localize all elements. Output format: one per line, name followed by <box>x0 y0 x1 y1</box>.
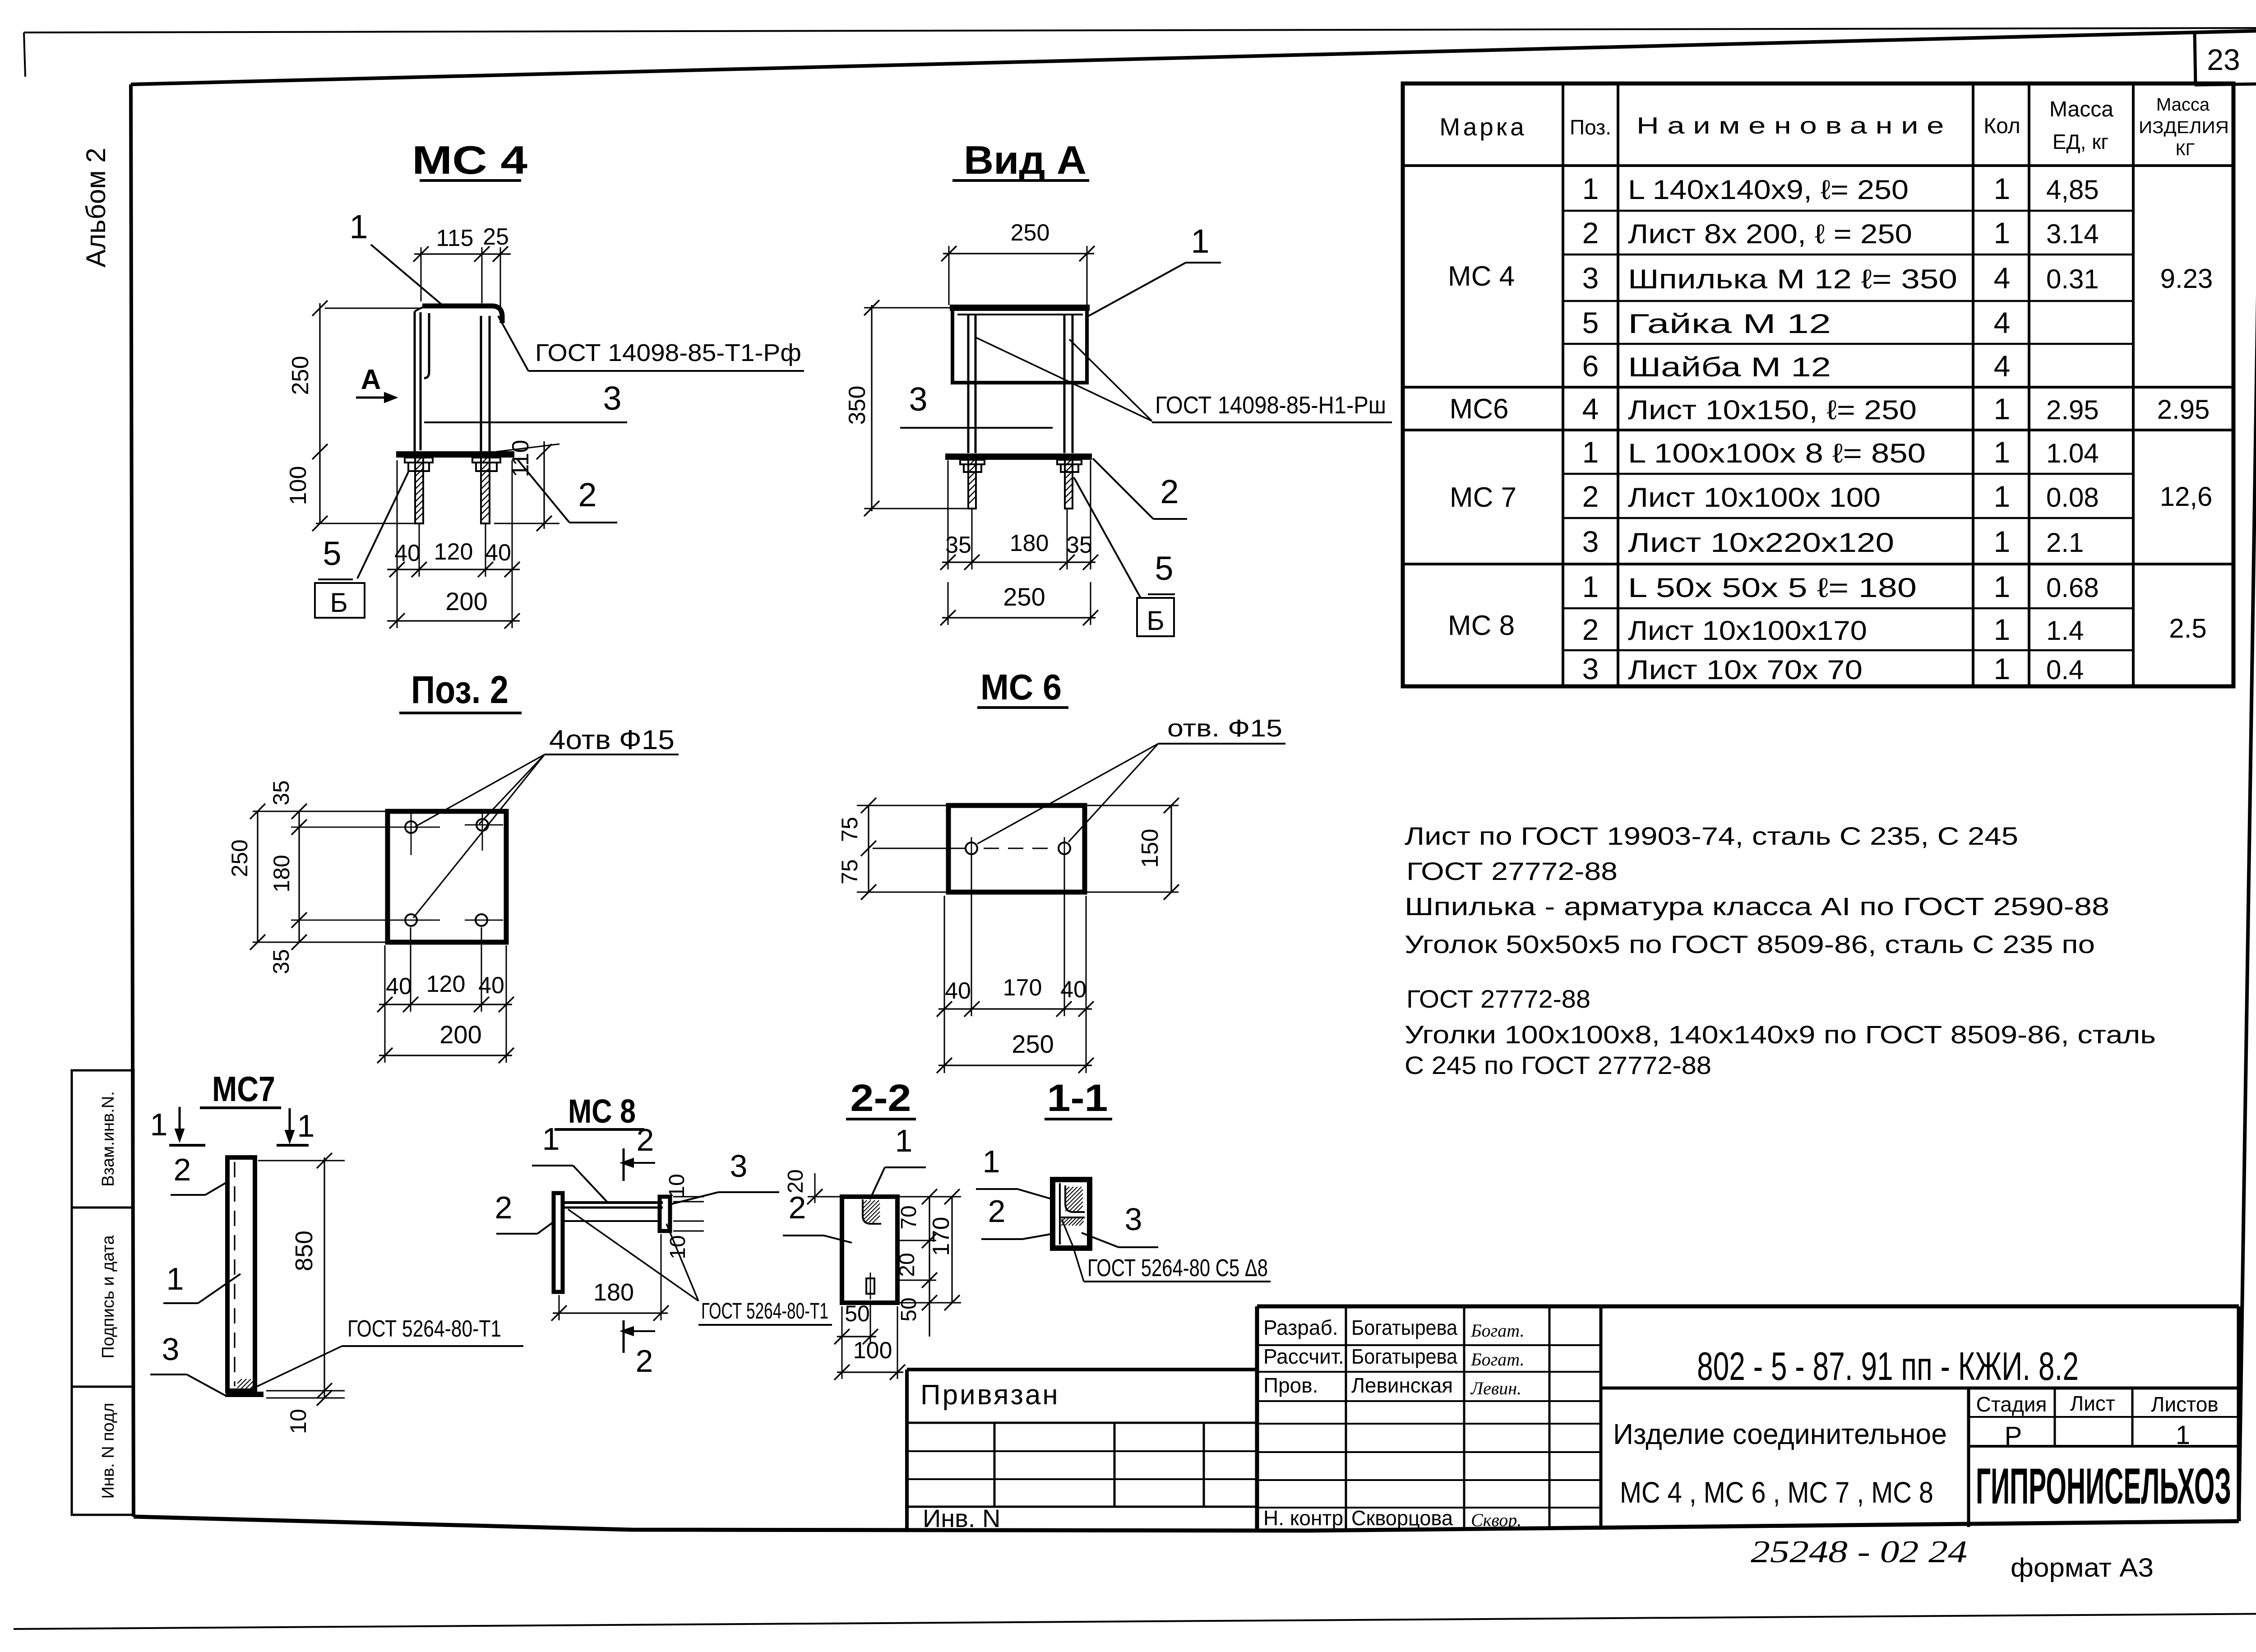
svg-text:100: 100 <box>853 1337 892 1364</box>
МС8 section mark 2 top <box>623 1148 625 1181</box>
spec table group separator lines <box>1403 386 2233 389</box>
svg-text:75: 75 <box>837 817 862 842</box>
side box Взам.инв.N <box>72 1070 134 1208</box>
svg-text:1: 1 <box>1994 525 2011 558</box>
МС4 left nut and washer <box>405 458 433 463</box>
svg-text:1: 1 <box>349 208 368 245</box>
МС6 hole left <box>966 842 977 854</box>
svg-text:2: 2 <box>1582 480 1599 513</box>
svg-text:Лист 10х220х120: Лист 10х220х120 <box>1628 528 1894 558</box>
svg-text:40: 40 <box>485 540 511 566</box>
Поз.2 hole bottom-left <box>405 914 417 926</box>
page number box line <box>2195 32 2196 85</box>
svg-text:Шайба М 12: Шайба М 12 <box>1628 352 1831 382</box>
svg-text:180: 180 <box>269 855 294 892</box>
svg-text:1: 1 <box>1994 570 2011 603</box>
МС8 end plate item3 <box>660 1197 670 1231</box>
svg-text:1: 1 <box>166 1261 184 1296</box>
svg-text:ИЗДЕЛИЯ: ИЗДЕЛИЯ <box>2139 118 2229 137</box>
svg-text:40: 40 <box>394 540 421 566</box>
svg-text:Гайка М 12: Гайка М 12 <box>1628 309 1831 339</box>
svg-text:Левин.: Левин. <box>1470 1378 1521 1398</box>
svg-text:12,6: 12,6 <box>2160 481 2213 512</box>
svg-text:Лист по ГОСТ 19903-74, ста: Лист по ГОСТ 19903-74, сталь С 235, С 24… <box>1405 822 2018 850</box>
2-2 weld mark top <box>863 1199 881 1224</box>
Вид А left stud <box>967 315 970 453</box>
svg-text:Р: Р <box>2005 1421 2022 1451</box>
svg-text:Богат.: Богат. <box>1470 1320 1525 1341</box>
side box Инв.N подл <box>72 1387 134 1515</box>
МС4 label Б box <box>315 583 365 618</box>
svg-text:2: 2 <box>174 1152 191 1187</box>
svg-text:L 50х 50х 5 ℓ= 180: L 50х 50х 5 ℓ= 180 <box>1628 573 1917 603</box>
МС6 dim 75 75 left <box>868 805 869 892</box>
svg-text:МС 8: МС 8 <box>1448 610 1515 641</box>
svg-text:МС 4: МС 4 <box>1448 261 1515 292</box>
svg-text:отв. Ф15: отв. Ф15 <box>1167 715 1282 742</box>
МС4 stud item3 above plate <box>480 316 482 452</box>
svg-text:6: 6 <box>1582 349 1599 383</box>
svg-text:Подпись и дата: Подпись и дата <box>99 1235 118 1358</box>
2-2 dim 50 bottom <box>837 1336 876 1337</box>
svg-text:4,85: 4,85 <box>2046 175 2099 205</box>
МС4 right stud below plate <box>481 458 490 523</box>
svg-text:1: 1 <box>983 1144 1000 1179</box>
МС7 dim 10 <box>317 1390 332 1406</box>
svg-text:Уголок 50х50х5 по ГОСТ 850: Уголок 50х50х5 по ГОСТ 8509-86, сталь С … <box>1405 930 2095 958</box>
svg-text:1.4: 1.4 <box>2046 615 2084 646</box>
svg-text:Привязан: Привязан <box>920 1379 1060 1411</box>
svg-text:100: 100 <box>285 466 311 505</box>
2-2 dim 170 right <box>951 1197 952 1303</box>
svg-text:ГОСТ 14098-85-Н1-Рш: ГОСТ 14098-85-Н1-Рш <box>1155 392 1386 419</box>
side box Подпись и дата <box>72 1208 134 1387</box>
svg-text:Лист 10х100х 100: Лист 10х100х 100 <box>1628 482 1881 513</box>
svg-text:2.5: 2.5 <box>2169 613 2206 643</box>
Вид А plate item1 front <box>952 308 1087 383</box>
svg-text:3: 3 <box>1582 261 1599 295</box>
Вид А right stud below <box>1065 460 1073 509</box>
svg-text:А: А <box>361 364 381 395</box>
svg-text:2: 2 <box>1160 473 1179 510</box>
МС6 dim 250 <box>938 1064 1092 1066</box>
МС4 angle vertical leg <box>414 311 416 452</box>
svg-text:Б: Б <box>1146 606 1164 636</box>
svg-text:Богатырева: Богатырева <box>1351 1345 1457 1368</box>
svg-text:2: 2 <box>636 1343 653 1379</box>
svg-text:250: 250 <box>1011 220 1050 246</box>
МС6 dashed centerline <box>984 848 1056 849</box>
Вид А right stud <box>1063 315 1066 453</box>
svg-text:МС 4 , МС 6 , МС 7 , МС 8: МС 4 , МС 6 , МС 7 , МС 8 <box>1620 1476 1933 1509</box>
svg-text:Н. контр: Н. контр <box>1263 1506 1343 1530</box>
document number 802-5-87.91 пп- КЖИ.8.2 <box>1601 1387 2239 1390</box>
Вид А hidden line <box>957 314 1083 315</box>
svg-text:2: 2 <box>1582 216 1599 250</box>
МС8 vertical plate item2 <box>554 1193 563 1292</box>
МС6 plate outline <box>948 805 1085 892</box>
svg-text:3: 3 <box>909 380 927 418</box>
svg-text:МС 8: МС 8 <box>568 1092 636 1130</box>
svg-text:МС 4: МС 4 <box>412 138 527 182</box>
svg-text:1: 1 <box>1994 172 2011 205</box>
svg-text:Шпилька М 12 ℓ= 350: Шпилька М 12 ℓ= 350 <box>1628 264 1957 294</box>
1-1 plate inner line <box>1059 1183 1061 1245</box>
МС4 top dim line <box>414 253 511 255</box>
svg-text:10: 10 <box>286 1409 311 1434</box>
svg-text:150: 150 <box>1137 829 1163 868</box>
svg-text:0.68: 0.68 <box>2046 573 2099 603</box>
Вид А label Б box <box>1137 598 1174 636</box>
svg-text:ГОСТ 27772-88: ГОСТ 27772-88 <box>1406 985 1590 1013</box>
МС4 right nut and washer <box>472 458 500 463</box>
Поз.2 dims 40 120 40 <box>379 1004 512 1005</box>
МС7 weld hatch bottom <box>237 1379 254 1390</box>
Поз.2 hole bottom-right <box>476 914 487 926</box>
svg-text:1: 1 <box>1994 613 2011 646</box>
svg-text:35: 35 <box>945 532 971 558</box>
svg-text:9.23: 9.23 <box>2160 264 2213 294</box>
svg-text:25248 - 02 24: 25248 - 02 24 <box>1751 1535 1967 1569</box>
Поз.2 dim 200 <box>379 1055 512 1056</box>
svg-text:Масса: Масса <box>2156 95 2210 115</box>
Поз.2 hole top-right <box>476 819 488 831</box>
paper bottom edge <box>14 1614 2256 1629</box>
МС4 dim 250 left <box>319 303 320 452</box>
svg-text:МС7: МС7 <box>212 1069 275 1109</box>
svg-text:Б: Б <box>330 588 347 618</box>
svg-text:25: 25 <box>483 224 509 250</box>
svg-text:3: 3 <box>1125 1202 1142 1237</box>
МС4 weld callout ГОСТ 14098-85-Т1-Рф <box>498 316 528 371</box>
svg-text:250: 250 <box>227 839 252 877</box>
МС4 dim 200 <box>387 620 520 621</box>
svg-text:250: 250 <box>1003 583 1045 611</box>
svg-text:200: 200 <box>445 587 487 615</box>
svg-text:5: 5 <box>323 535 341 572</box>
МС7 hidden dashed line <box>234 1162 235 1386</box>
МС4 leader 1 line <box>371 245 444 307</box>
svg-text:70: 70 <box>897 1205 921 1229</box>
Вид А right nut <box>1057 460 1082 464</box>
svg-text:1: 1 <box>1994 480 2011 513</box>
svg-text:1: 1 <box>1582 172 1599 205</box>
paper top edge <box>24 28 2256 32</box>
svg-text:2.1: 2.1 <box>2046 528 2084 558</box>
МС7 base plate item3 <box>226 1392 264 1397</box>
МС4 dim extension lines top <box>421 247 422 301</box>
Вид А left stud below <box>968 460 976 509</box>
svg-text:23: 23 <box>2207 43 2240 76</box>
Поз.2 dim 250 left <box>257 811 258 942</box>
МС6 dims 40 170 40 <box>938 1008 1092 1009</box>
svg-text:0.4: 0.4 <box>2046 655 2084 685</box>
Привязан table rows <box>907 1422 1257 1424</box>
svg-text:3: 3 <box>162 1332 180 1367</box>
svg-text:ГИПРОНИСЕЛЬХОЗ: ГИПРОНИСЕЛЬХОЗ <box>1976 1458 2231 1514</box>
svg-text:МС 6: МС 6 <box>980 667 1062 707</box>
МС4 leader 3 line <box>424 421 627 423</box>
spec table outer border <box>1403 83 2233 686</box>
svg-text:Пров.: Пров. <box>1263 1374 1318 1397</box>
svg-text:2: 2 <box>637 1122 654 1157</box>
svg-text:ЕД, кг: ЕД, кг <box>2053 130 2108 153</box>
svg-text:40: 40 <box>478 972 504 999</box>
svg-text:1: 1 <box>1994 216 2011 250</box>
svg-text:Сквор.: Сквор. <box>1471 1510 1521 1530</box>
svg-text:1: 1 <box>1994 652 2011 685</box>
svg-text:120: 120 <box>426 971 466 997</box>
svg-text:1: 1 <box>895 1123 913 1158</box>
svg-text:35: 35 <box>268 949 294 974</box>
svg-text:20: 20 <box>895 1253 919 1277</box>
МС7 section mark 1 right <box>289 1108 291 1137</box>
sheet frame left <box>131 84 134 1517</box>
title block outline <box>1257 1305 2239 1309</box>
svg-text:1: 1 <box>2176 1421 2190 1450</box>
svg-text:4: 4 <box>1994 261 2011 295</box>
Привязан table outline <box>907 1368 1257 1371</box>
МС8 weld leaders <box>568 1209 698 1301</box>
svg-text:L 140х140х9, ℓ= 250: L 140х140х9, ℓ= 250 <box>1628 175 1909 205</box>
МС4 angle inner hook <box>424 313 429 378</box>
svg-text:1-1: 1-1 <box>1047 1077 1108 1119</box>
svg-text:Шпилька - арматура класса А: Шпилька - арматура класса АI по ГОСТ 259… <box>1405 892 2109 921</box>
Поз.2 hole top-left <box>405 821 417 833</box>
svg-text:1: 1 <box>1582 570 1599 603</box>
svg-text:Листов: Листов <box>2151 1393 2218 1416</box>
2-2 dims right 70 20 50 <box>929 1197 930 1337</box>
svg-text:С 245 по ГОСТ 27772-88: С 245 по ГОСТ 27772-88 <box>1405 1051 1711 1079</box>
svg-text:50: 50 <box>845 1301 870 1326</box>
spec table thin row lines <box>1563 210 2133 212</box>
svg-text:Марка: Марка <box>1439 113 1526 141</box>
svg-text:40: 40 <box>945 978 971 1004</box>
svg-text:Разраб.: Разраб. <box>1263 1316 1338 1339</box>
svg-text:50: 50 <box>897 1297 921 1321</box>
title block signature table <box>1600 1306 1603 1530</box>
svg-text:35: 35 <box>1066 532 1092 558</box>
svg-text:Богатырева: Богатырева <box>1351 1316 1457 1339</box>
svg-text:Вид А: Вид А <box>964 138 1086 182</box>
МС4 dim 110 right <box>496 444 559 452</box>
svg-text:3: 3 <box>1582 652 1599 685</box>
svg-text:Лист 10х150, ℓ= 250: Лист 10х150, ℓ= 250 <box>1628 395 1917 425</box>
svg-text:1: 1 <box>542 1121 560 1157</box>
svg-text:1: 1 <box>1994 392 2011 426</box>
svg-text:Поз. 2: Поз. 2 <box>411 668 509 712</box>
svg-text:Альбом 2: Альбом 2 <box>81 148 111 267</box>
1-1 weld diagonal <box>1062 1219 1073 1246</box>
sheet frame right <box>2239 31 2256 1521</box>
svg-text:4отв Ф15: 4отв Ф15 <box>549 725 675 755</box>
svg-text:10: 10 <box>665 1174 689 1198</box>
МС4 dim 100 left <box>319 452 320 523</box>
svg-text:МС 7: МС 7 <box>1450 482 1516 513</box>
spec table header bottom line <box>1403 164 2233 167</box>
1-1 inner horizontal line <box>1060 1217 1085 1218</box>
svg-text:формат А3: формат А3 <box>2011 1553 2154 1583</box>
svg-text:2: 2 <box>578 476 596 514</box>
svg-text:Лист: Лист <box>2070 1392 2115 1415</box>
svg-text:2: 2 <box>495 1190 513 1225</box>
Вид А base plate item4 <box>945 453 1092 460</box>
svg-text:Лист 10х 70х 70: Лист 10х 70х 70 <box>1628 655 1863 685</box>
svg-text:Уголки 100х100х8, 140х140х9: Уголки 100х100х8, 140х140х9 по ГОСТ 8509… <box>1405 1020 2156 1049</box>
svg-text:802 - 5 - 87. 91 пп - КЖИ. 8.: 802 - 5 - 87. 91 пп - КЖИ. 8.2 <box>1697 1344 2079 1388</box>
svg-text:ГОСТ 5264-80-Т1: ГОСТ 5264-80-Т1 <box>701 1298 828 1323</box>
Поз.2 dim 35 top <box>298 811 300 942</box>
svg-text:Скворцова: Скворцова <box>1351 1506 1453 1530</box>
svg-text:Левинская: Левинская <box>1351 1374 1453 1397</box>
sheet frame bottom <box>134 1517 2239 1531</box>
МС8 angle item1 <box>563 1201 663 1204</box>
svg-text:Взам.инв.N.: Взам.инв.N. <box>99 1091 118 1187</box>
svg-text:250: 250 <box>1012 1030 1054 1058</box>
svg-text:2.95: 2.95 <box>2157 394 2210 425</box>
svg-text:ГОСТ 5264-80-Т1: ГОСТ 5264-80-Т1 <box>347 1316 501 1342</box>
1-1 weld fillet <box>1065 1185 1085 1212</box>
paper top-left tick <box>24 32 25 77</box>
svg-text:4: 4 <box>1994 349 2011 383</box>
svg-text:10: 10 <box>666 1235 690 1259</box>
svg-text:Изделие соединительное: Изделие соединительное <box>1613 1418 1947 1450</box>
svg-text:5: 5 <box>1155 550 1173 587</box>
Стадия Лист Листов table <box>1967 1388 1970 1527</box>
svg-text:КГ: КГ <box>2176 140 2195 159</box>
svg-text:2: 2 <box>789 1190 806 1225</box>
МС4 angle top flange <box>422 306 502 323</box>
svg-text:Кол: Кол <box>1983 114 2020 138</box>
МС7 plate item1 outline <box>227 1157 255 1391</box>
svg-text:1: 1 <box>297 1108 315 1143</box>
svg-text:ГОСТ 5264-80 С5 Δ8: ГОСТ 5264-80 С5 Δ8 <box>1087 1254 1268 1282</box>
svg-text:0.31: 0.31 <box>2046 264 2099 294</box>
sheet frame top <box>131 31 2256 84</box>
svg-text:2: 2 <box>1582 613 1599 646</box>
svg-text:170: 170 <box>1003 975 1042 1001</box>
svg-text:3: 3 <box>730 1148 748 1184</box>
svg-text:1.04: 1.04 <box>2046 438 2099 468</box>
svg-text:0.08: 0.08 <box>2046 482 2099 513</box>
svg-text:Наименование: Наименование <box>1637 113 1952 139</box>
svg-text:2-2: 2-2 <box>851 1077 911 1119</box>
svg-text:МС6: МС6 <box>1450 393 1509 425</box>
2-2 plate outline <box>842 1197 897 1303</box>
svg-text:Поз.: Поз. <box>1570 116 1611 139</box>
svg-text:1: 1 <box>1994 435 2011 469</box>
svg-text:ГОСТ 27772-88: ГОСТ 27772-88 <box>1406 857 1618 885</box>
МС6 hole right <box>1059 842 1070 854</box>
Поз.2 hole centerlines <box>291 827 440 828</box>
МС4 left stud below plate <box>415 458 423 523</box>
svg-text:Лист 8х 200, ℓ = 250: Лист 8х 200, ℓ = 250 <box>1628 219 1912 249</box>
svg-text:200: 200 <box>439 1020 481 1049</box>
svg-text:250: 250 <box>287 356 314 395</box>
svg-text:ГОСТ 14098-85-Т1-Рф: ГОСТ 14098-85-Т1-Рф <box>535 339 801 366</box>
svg-text:Инв. N: Инв. N <box>923 1504 1000 1532</box>
2-2 bolt detail bottom <box>866 1278 874 1294</box>
svg-text:Лист 10х100х170: Лист 10х100х170 <box>1628 615 1867 646</box>
МС6 dim 150 right <box>1170 805 1172 892</box>
Поз.2 plate outline <box>388 811 506 942</box>
svg-text:170: 170 <box>928 1217 954 1256</box>
svg-text:75: 75 <box>837 859 862 884</box>
МС4 dims 40 120 40 <box>387 569 520 570</box>
МС8 section mark 2 bottom <box>623 1320 625 1353</box>
svg-text:2.95: 2.95 <box>2046 395 2099 425</box>
svg-text:4: 4 <box>1994 306 2011 339</box>
svg-text:2: 2 <box>988 1194 1006 1229</box>
svg-text:L 100х100х 8 ℓ= 850: L 100х100х 8 ℓ= 850 <box>1628 438 1926 468</box>
spec table column lines <box>1562 83 1564 686</box>
svg-text:Масса: Масса <box>2049 97 2113 121</box>
МС8 dim 180 <box>553 1312 668 1314</box>
Вид А dims 35 180 35 <box>942 561 1096 563</box>
МС4 base plate item2 <box>396 451 514 458</box>
Поз.2 dim extension lines <box>253 811 388 812</box>
МС7 dim 850 <box>324 1157 325 1398</box>
svg-text:3: 3 <box>1582 525 1599 558</box>
svg-text:40: 40 <box>386 973 412 1000</box>
Привязан table columns <box>994 1423 996 1507</box>
svg-text:Богат.: Богат. <box>1470 1349 1525 1370</box>
svg-text:35: 35 <box>268 780 294 805</box>
svg-text:115: 115 <box>436 225 474 251</box>
2-2 dim 100 bottom <box>837 1371 903 1373</box>
svg-text:Инв. N подл: Инв. N подл <box>99 1403 118 1499</box>
Вид А left nut <box>960 460 985 464</box>
Вид А dim 350 <box>871 305 872 511</box>
svg-text:120: 120 <box>434 539 473 565</box>
svg-text:1: 1 <box>1191 222 1209 260</box>
svg-text:4: 4 <box>1582 392 1599 426</box>
svg-text:3.14: 3.14 <box>2046 219 2099 249</box>
svg-text:180: 180 <box>593 1279 634 1306</box>
svg-text:3: 3 <box>603 379 621 417</box>
svg-text:Стадия: Стадия <box>1976 1393 2047 1416</box>
svg-text:1: 1 <box>1582 435 1599 469</box>
svg-text:180: 180 <box>1010 530 1049 556</box>
svg-text:5: 5 <box>1582 306 1599 339</box>
Вид А dim 250 bottom <box>942 617 1096 618</box>
svg-text:850: 850 <box>291 1231 318 1271</box>
svg-text:1: 1 <box>150 1107 168 1142</box>
svg-text:350: 350 <box>844 386 870 425</box>
svg-text:Рассчит.: Рассчит. <box>1263 1345 1344 1368</box>
1-1 section outline <box>1053 1180 1090 1248</box>
